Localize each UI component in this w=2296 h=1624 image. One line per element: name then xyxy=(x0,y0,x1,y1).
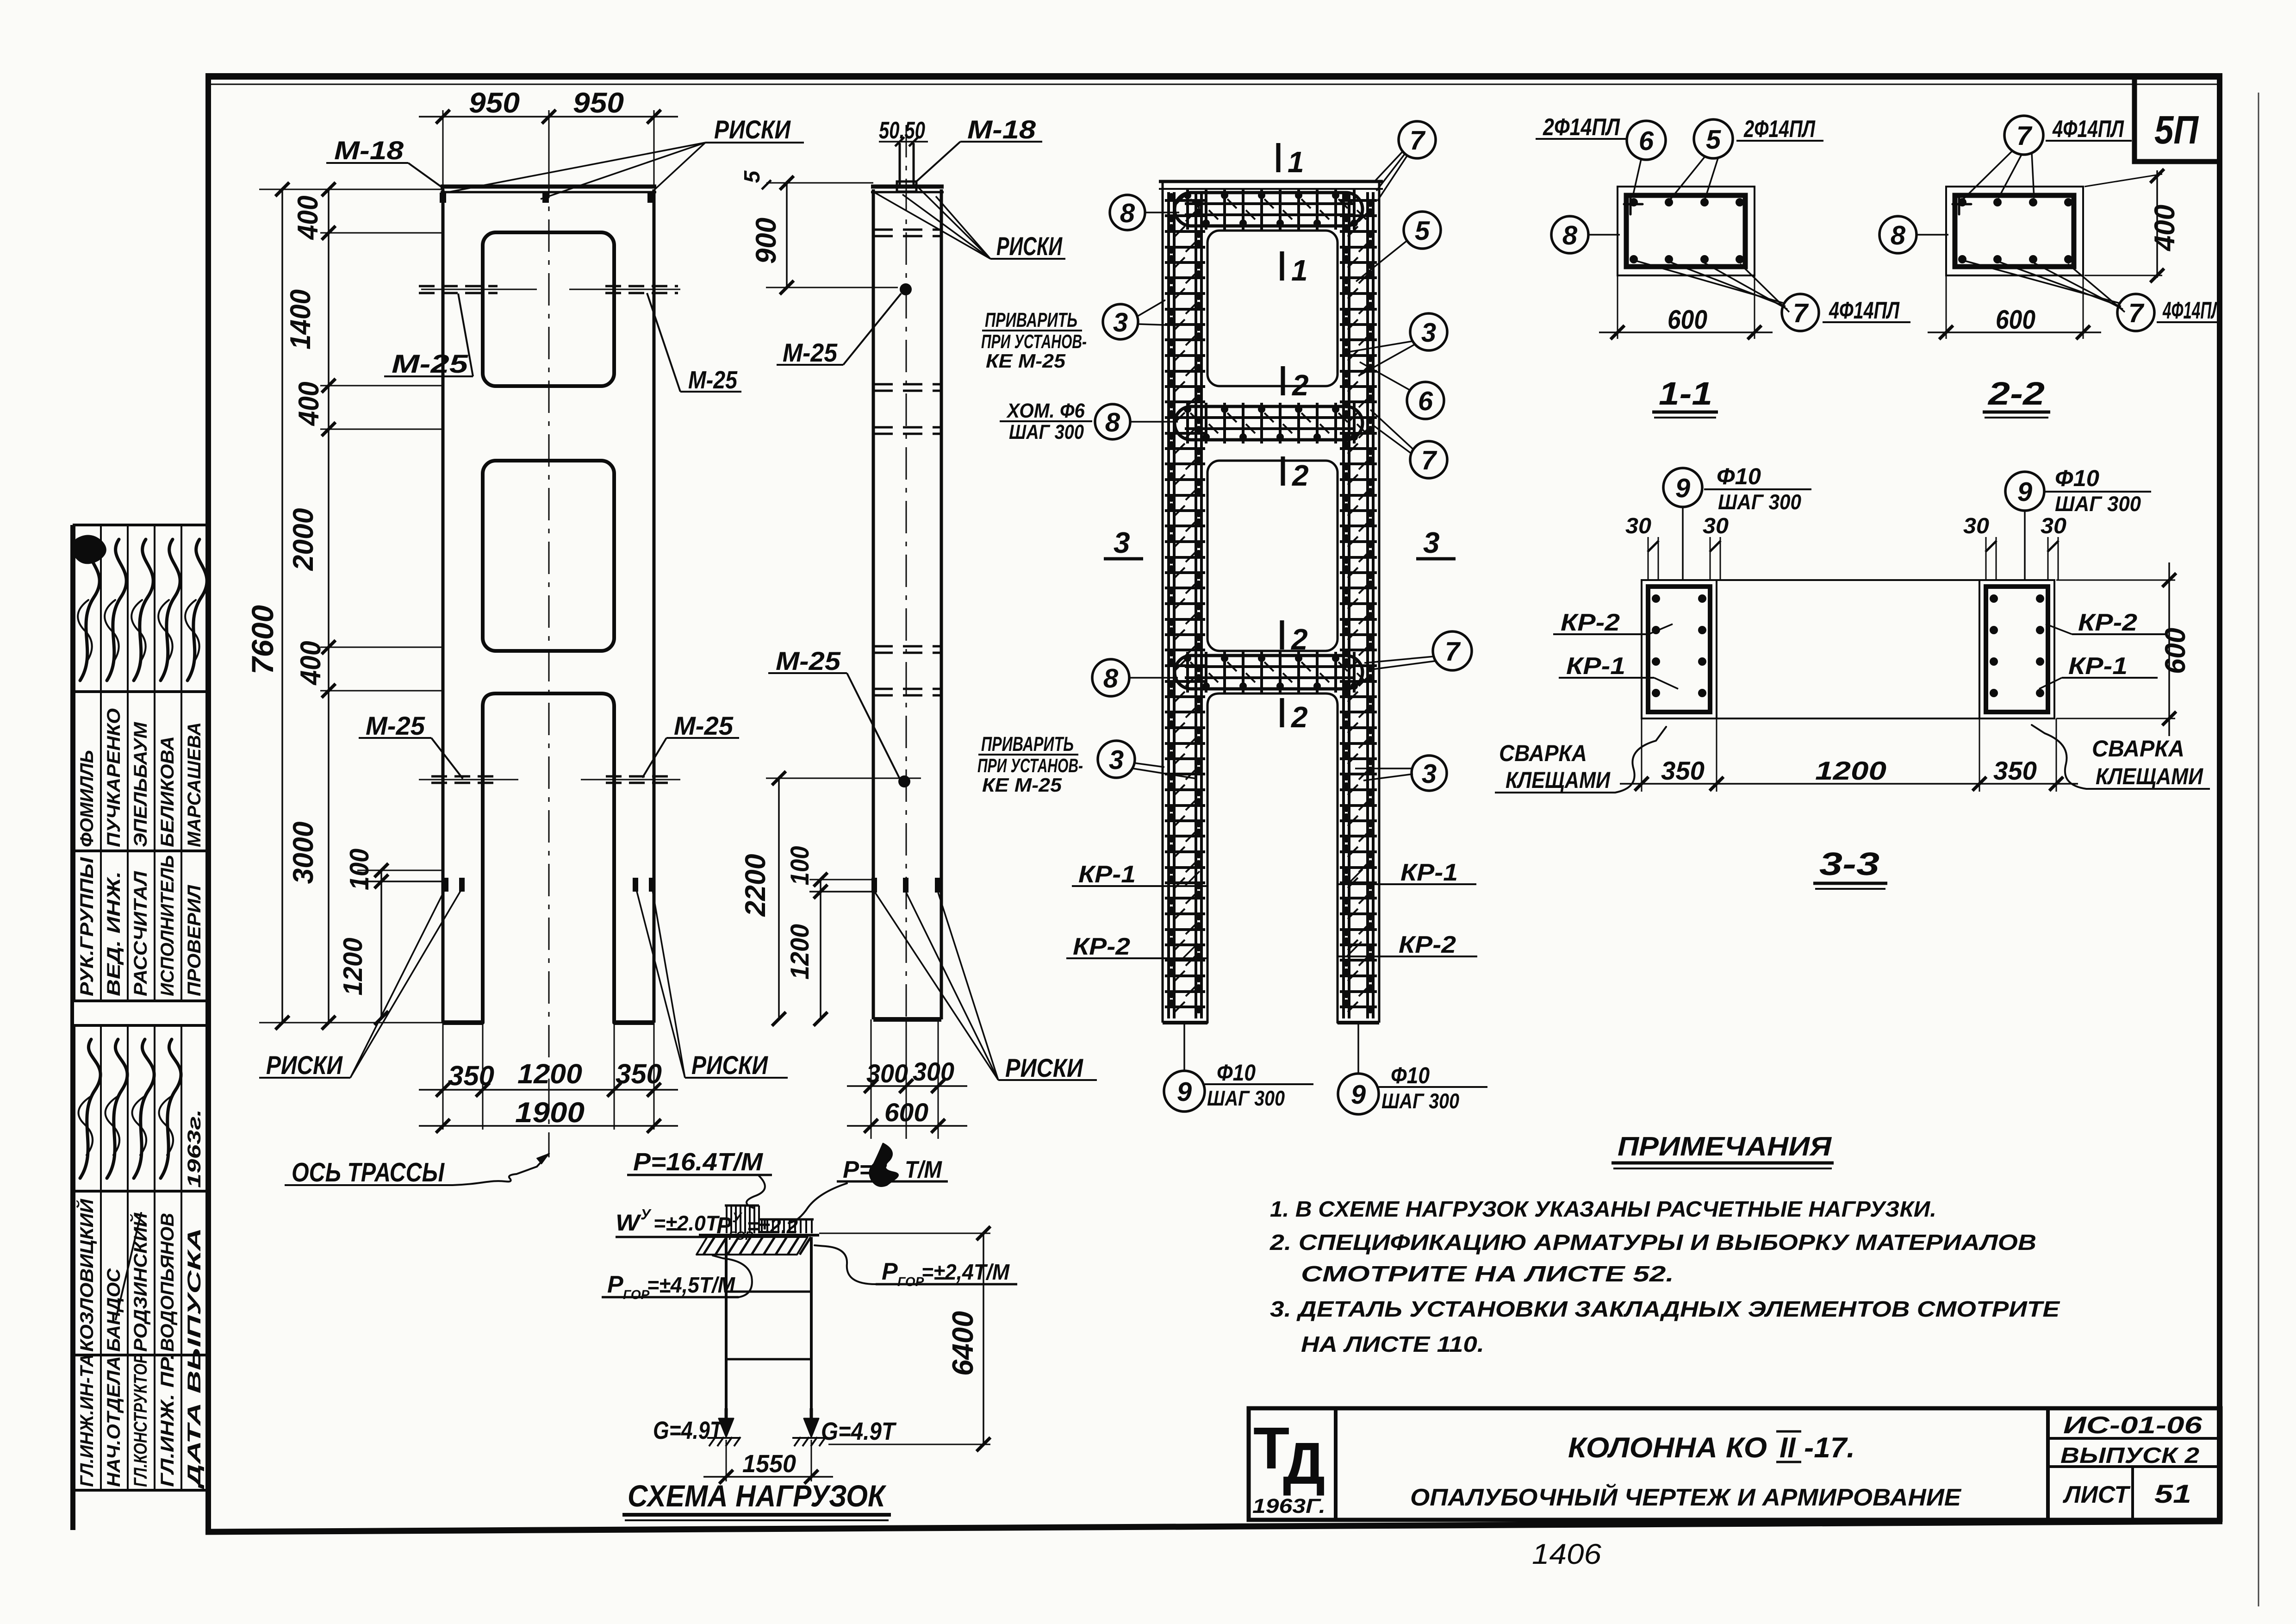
label RISKI bottom right (front view) xyxy=(636,888,788,1080)
svg-text:КР-1: КР-1 xyxy=(1566,653,1625,680)
svg-text:М-25: М-25 xyxy=(392,349,468,378)
front view upper M-25 embed dashed marks xyxy=(419,285,498,287)
load scheme label P=16.4t/m with leader xyxy=(627,1148,772,1208)
svg-text:1200: 1200 xyxy=(1815,756,1886,785)
section 3-3 connecting outline lines xyxy=(1717,580,1979,718)
dimension 7600 overall left xyxy=(245,182,444,1030)
label M-18 front view with leader xyxy=(326,136,443,188)
svg-text:Ф10: Ф10 xyxy=(1391,1062,1430,1088)
svg-text:400: 400 xyxy=(292,196,324,241)
load scheme label Rgor=2.4t/m with leader xyxy=(815,1245,1017,1289)
callout circle 5 section 1-1 with leader fan xyxy=(1670,119,1733,200)
svg-text:1400: 1400 xyxy=(285,289,317,350)
svg-text:Т/М: Т/М xyxy=(905,1156,943,1183)
label Privarit pri ustanovke M-25 lower with circle 3 xyxy=(977,733,1197,796)
svg-text:350: 350 xyxy=(448,1060,494,1091)
label Svarka kleschami left 3-3 xyxy=(1495,727,1666,793)
side view hidden dashed lines of openings xyxy=(873,230,941,695)
svg-text:БАНДОС: БАНДОС xyxy=(104,1268,124,1352)
svg-text:ОПАЛУБОЧНЫЙ ЧЕРТЕЖ И АРМ: ОПАЛУБОЧНЫЙ ЧЕРТЕЖ И АРМИРОВАНИЕ xyxy=(1410,1483,1961,1511)
svg-text:100: 100 xyxy=(344,849,374,890)
section 2-2 cross section rect xyxy=(1946,187,2083,275)
side view column outline xyxy=(871,187,944,1019)
label Kr-2 left leg with rule xyxy=(1066,933,1208,960)
section mark 1 inside opening 1 xyxy=(1282,251,1308,287)
svg-text:КЛЕЩАМИ: КЛЕЩАМИ xyxy=(2096,763,2203,789)
rebar view left wall cage band xyxy=(1165,192,1205,1018)
svg-text:1550: 1550 xyxy=(742,1450,796,1478)
svg-text:ГЛ.ИНЖ. ПР.: ГЛ.ИНЖ. ПР. xyxy=(157,1354,178,1487)
svg-text:ШАГ 300: ШАГ 300 xyxy=(1381,1089,1459,1113)
section mark 3 left of legs xyxy=(1104,526,1143,559)
svg-text:ГЛ.ИНЖ.ИН-ТА: ГЛ.ИНЖ.ИН-ТА xyxy=(77,1354,97,1487)
rebar view middle stirrup band 2 xyxy=(1175,652,1366,693)
svg-text:ЭПЕЛЬБАУМ: ЭПЕЛЬБАУМ xyxy=(131,721,151,847)
title block outer frame xyxy=(1249,1408,2221,1520)
svg-text:РИСКИ: РИСКИ xyxy=(1005,1053,1083,1082)
svg-text:ГОР: ГОР xyxy=(897,1274,924,1289)
label Kr-1 left leg with rule xyxy=(1072,861,1208,888)
title 2-2 xyxy=(1983,375,2050,418)
svg-text:У: У xyxy=(641,1206,652,1223)
svg-text:Р=16.4Т/М: Р=16.4Т/М xyxy=(633,1148,763,1176)
svg-text:КЕ М-25: КЕ М-25 xyxy=(982,774,1062,796)
svg-text:ШАГ 300: ШАГ 300 xyxy=(2055,492,2141,516)
section mark 2 inside opening 1 xyxy=(1283,366,1309,402)
dimension 2200 side view xyxy=(740,771,921,1026)
svg-text:СВАРКА: СВАРКА xyxy=(1499,740,1587,766)
svg-text:7: 7 xyxy=(1793,298,1809,328)
label M-25 upper left (front view) xyxy=(384,294,473,378)
svg-text:ПРИМЕЧАНИЯ: ПРИМЕЧАНИЯ xyxy=(1618,1131,1832,1162)
svg-text:ВЫПУСК 2: ВЫПУСК 2 xyxy=(2060,1443,2199,1468)
callout circle 7 section 1-1 with leader fan and label 4F14pl xyxy=(1634,260,1910,331)
svg-text:=±2,4Т/М: =±2,4Т/М xyxy=(921,1260,1010,1285)
svg-text:ХОМ. Ф6: ХОМ. Ф6 xyxy=(1006,400,1085,422)
title 1-1 xyxy=(1652,375,1718,418)
svg-text:ПУЧКАРЕНКО: ПУЧКАРЕНКО xyxy=(104,708,124,847)
svg-text:2: 2 xyxy=(1291,700,1308,734)
callout circle 8 at band 2 left with leader xyxy=(1092,659,1178,696)
svg-text:1: 1 xyxy=(1288,145,1304,179)
svg-text:=±4,5Т/М: =±4,5Т/М xyxy=(647,1273,735,1298)
title block main title Kolonna KO II-17 xyxy=(1568,1431,1855,1464)
load scheme distributed load arrows block p xyxy=(759,1219,814,1233)
svg-text:G=4.9Т: G=4.9Т xyxy=(653,1417,724,1444)
side view M-25 dot lower xyxy=(898,775,910,787)
svg-text:4Ф14ПЛ: 4Ф14ПЛ xyxy=(2052,116,2124,143)
circle 9 left section 3-3 with F10 shag 300 xyxy=(1663,463,1811,580)
svg-text:7: 7 xyxy=(1445,637,1461,667)
svg-text:600: 600 xyxy=(2159,628,2191,674)
rebar view outline xyxy=(1159,181,1383,1023)
svg-text:КР-2: КР-2 xyxy=(1561,609,1620,636)
svg-text:ШАГ 300: ШАГ 300 xyxy=(1207,1086,1285,1110)
svg-text:II: II xyxy=(1780,1432,1796,1464)
svg-text:W: W xyxy=(616,1210,641,1236)
dimension 50,50 above side view stem xyxy=(879,117,928,146)
svg-text:9: 9 xyxy=(1177,1077,1192,1107)
front view lower M-25 embed dashed marks xyxy=(431,775,497,778)
svg-text:1200: 1200 xyxy=(517,1058,582,1089)
svg-text:5: 5 xyxy=(740,170,765,183)
svg-text:2: 2 xyxy=(1292,459,1309,492)
label Kr-2 right leg with rule xyxy=(1337,931,1477,958)
load scheme label Wy and Rgor xyxy=(616,1206,798,1243)
svg-text:5: 5 xyxy=(1415,216,1430,246)
svg-text:М-25: М-25 xyxy=(783,338,838,367)
callout circle 8 section 2-2 with leader xyxy=(1879,216,1948,253)
svg-text:8: 8 xyxy=(1103,663,1119,693)
load scheme top chord and hatched cap xyxy=(697,1235,819,1255)
svg-text:300: 300 xyxy=(866,1059,908,1088)
svg-text:600: 600 xyxy=(1996,305,2035,335)
svg-text:ПРИ УСТАНОВ-: ПРИ УСТАНОВ- xyxy=(981,331,1087,352)
svg-text:950: 950 xyxy=(573,87,624,119)
section 3-3 left leg rect xyxy=(1642,580,1717,718)
svg-text:ВОДОПЬЯНОВ: ВОДОПЬЯНОВ xyxy=(157,1213,178,1352)
dimension 600 section 2-2 xyxy=(1928,275,2101,339)
label RISKI side view top with leader fan xyxy=(875,184,1065,261)
dimension 950+950 top xyxy=(419,87,678,194)
load scheme label p=8.4t/m with leader and ink blot xyxy=(789,1143,948,1223)
label M-25 side view lower xyxy=(768,646,900,779)
svg-text:РИСКИ: РИСКИ xyxy=(996,231,1063,261)
svg-text:350: 350 xyxy=(1993,756,2037,785)
svg-text:8: 8 xyxy=(1891,220,1906,250)
svg-text:7: 7 xyxy=(2016,121,2033,151)
svg-text:=±2.0Т: =±2.0Т xyxy=(653,1211,720,1235)
svg-text:30: 30 xyxy=(1625,514,1651,538)
svg-text:ДАТА ВЫПУСКА: ДАТА ВЫПУСКА xyxy=(184,1228,205,1489)
section mark 2 inside opening 2 xyxy=(1282,620,1308,656)
dimension 5 side view plate thickness xyxy=(740,170,873,189)
svg-text:М-25: М-25 xyxy=(776,646,841,675)
circle 9 right section 3-3 with F10 shag 300 xyxy=(2005,465,2151,580)
svg-text:51: 51 xyxy=(2154,1479,2191,1508)
section mark 2 below band 2 xyxy=(1282,698,1308,734)
label RISKI bottom left (front view) xyxy=(259,888,462,1080)
front view centerline (ось трассы) xyxy=(548,112,550,1157)
svg-text:3: 3 xyxy=(1114,526,1130,559)
sidebar approval table block 1 (signatures/names/roles) xyxy=(70,525,208,1530)
dimensions 30 above right leg 3-3 xyxy=(1963,514,2066,580)
svg-text:1200: 1200 xyxy=(338,938,368,996)
svg-text:СВАРКА: СВАРКА xyxy=(2092,736,2184,762)
svg-text:2Ф14ПЛ: 2Ф14ПЛ xyxy=(1543,114,1620,141)
section 1-1 corner weld mark xyxy=(1624,198,1643,214)
svg-text:ОСЬ ТРАССЫ: ОСЬ ТРАССЫ xyxy=(292,1157,445,1187)
svg-text:Ф10: Ф10 xyxy=(1217,1060,1256,1086)
svg-text:7: 7 xyxy=(2128,298,2145,328)
svg-text:30: 30 xyxy=(2041,514,2066,538)
callout circle 6 right with leader xyxy=(1360,362,1444,419)
label M-18 side view with leader xyxy=(916,115,1042,181)
section mark 3 right of legs xyxy=(1416,526,1456,559)
svg-text:М-18: М-18 xyxy=(967,115,1036,144)
svg-text:РИСКИ: РИСКИ xyxy=(691,1050,768,1080)
svg-text:1900: 1900 xyxy=(515,1097,585,1129)
load scheme dimension 6400 xyxy=(819,1226,990,1451)
dimension 300,300 below side view xyxy=(847,1019,967,1139)
title Skhema nagruzok xyxy=(622,1479,891,1520)
svg-text:400: 400 xyxy=(293,382,325,427)
label Kr-1 right 3-3 xyxy=(2039,653,2158,689)
svg-text:3000: 3000 xyxy=(287,822,319,884)
svg-text:РАССЧИТАЛ: РАССЧИТАЛ xyxy=(131,870,151,996)
svg-text:3-3: 3-3 xyxy=(1819,846,1879,882)
svg-text:КОЗЛОВИЦКИЙ: КОЗЛОВИЦКИЙ xyxy=(76,1199,97,1352)
svg-text:М-25: М-25 xyxy=(688,366,738,394)
front view opening 1 xyxy=(483,232,614,386)
svg-text:Р: Р xyxy=(607,1271,623,1298)
svg-text:НАЧ.ОТДЕЛА: НАЧ.ОТДЕЛА xyxy=(104,1356,124,1487)
callout circle 7 at band 2 right with leaders xyxy=(1364,631,1472,670)
svg-text:ЛИСТ: ЛИСТ xyxy=(2062,1481,2131,1508)
svg-text:СМОТРИТЕ НА ЛИСТЕ 52.: СМОТРИТЕ НА ЛИСТЕ 52. xyxy=(1301,1262,1674,1287)
svg-text:РОДЗИНСКИЙ: РОДЗИНСКИЙ xyxy=(130,1212,151,1352)
callout circle 7 section 2-2 top with leader fan and label 4F14pl xyxy=(1963,116,2132,199)
svg-text:1200: 1200 xyxy=(785,924,814,980)
dimension 1200/100 front lower left xyxy=(338,849,443,1025)
svg-text:350: 350 xyxy=(1661,756,1705,785)
svg-text:2. СПЕЦИФИКАЦИЮ АРМАТУРЫ И: 2. СПЕЦИФИКАЦИЮ АРМАТУРЫ И ВЫБОРКУ МАТЕР… xyxy=(1269,1230,2036,1255)
svg-text:1406: 1406 xyxy=(1532,1538,1602,1570)
dimension 600 right side 3-3 xyxy=(2056,562,2191,736)
callout circle 3 right upper with leaders xyxy=(1349,313,1447,376)
svg-text:ПРИВАРИТЬ: ПРИВАРИТЬ xyxy=(981,733,1074,756)
svg-text:900: 900 xyxy=(750,218,782,264)
svg-text:2: 2 xyxy=(1291,623,1308,656)
svg-text:7: 7 xyxy=(1410,125,1426,156)
svg-text:5П: 5П xyxy=(2154,108,2199,152)
svg-text:G=4.9Т: G=4.9Т xyxy=(821,1418,897,1445)
svg-text:ПРИ УСТАНОВ-: ПРИ УСТАНОВ- xyxy=(977,755,1083,776)
svg-text:ПРИВАРИТЬ: ПРИВАРИТЬ xyxy=(985,309,1077,331)
callout circle 5 right with leader xyxy=(1356,212,1441,281)
svg-text:НА ЛИСТЕ 110.: НА ЛИСТЕ 110. xyxy=(1301,1332,1484,1357)
svg-text:100: 100 xyxy=(785,846,814,886)
label Kr-2 right 3-3 xyxy=(2046,609,2168,636)
svg-text:Ф10: Ф10 xyxy=(2055,465,2099,491)
svg-text:30: 30 xyxy=(1703,514,1729,538)
load scheme column bar xyxy=(726,1235,811,1408)
svg-text:600: 600 xyxy=(1668,305,1707,335)
svg-text:6: 6 xyxy=(1639,126,1654,156)
svg-text:М-25: М-25 xyxy=(674,711,734,740)
svg-text:1963г.: 1963г. xyxy=(184,1109,205,1188)
section 1-1 cross section rect xyxy=(1618,187,1755,275)
load scheme dimension 1550 xyxy=(703,1440,833,1484)
load scheme bottom arrows G=4.9t xyxy=(653,1408,897,1446)
svg-text:3: 3 xyxy=(1109,745,1124,775)
rebar view top stirrup band xyxy=(1175,189,1366,230)
svg-text:КР-1: КР-1 xyxy=(1078,861,1136,888)
dimension 900 side view xyxy=(750,176,898,294)
svg-text:СХЕМА НАГРУЗОК: СХЕМА НАГРУЗОК xyxy=(628,1479,887,1513)
dimension 1900 bottom of front view xyxy=(419,1097,678,1133)
dimension 400 section 2-2 right xyxy=(2084,169,2181,282)
svg-text:300: 300 xyxy=(913,1057,954,1086)
svg-text:КР-2: КР-2 xyxy=(1399,931,1456,958)
svg-text:350: 350 xyxy=(616,1058,662,1089)
svg-text:5: 5 xyxy=(1706,125,1721,155)
label Kr-1 right leg with rule xyxy=(1337,859,1476,886)
label Khom F6 shag 300 with circle 8 xyxy=(1000,400,1178,443)
svg-text:У: У xyxy=(732,1210,743,1225)
svg-text:30: 30 xyxy=(1963,514,1989,538)
callout circle 3 lower right with leaders xyxy=(1355,756,1447,791)
front view opening 2 xyxy=(483,461,614,651)
svg-text:ФОМИЛЛЬ: ФОМИЛЛЬ xyxy=(77,750,97,847)
label 2F14pl right section 1-1 xyxy=(1736,116,1823,143)
dimension 1200/100 side view xyxy=(785,846,872,1026)
svg-text:Ф10: Ф10 xyxy=(1717,463,1761,489)
svg-text:400: 400 xyxy=(2149,205,2181,252)
label Os trassy with leader arrow to centerline xyxy=(285,1154,549,1187)
svg-text:1-1: 1-1 xyxy=(1659,375,1712,412)
callout circle 9 left with F10 shag 300 xyxy=(1164,1023,1313,1112)
dimension 350/1200/350 below 3-3 xyxy=(1620,718,2078,792)
notes title Primechaniya xyxy=(1612,1131,1834,1168)
svg-text:КОЛОННА КО: КОЛОННА КО xyxy=(1568,1432,1767,1464)
side view M-25 dot upper xyxy=(900,283,912,295)
svg-text:РУК.ГРУППЫ: РУК.ГРУППЫ xyxy=(77,857,97,996)
svg-text:Р: Р xyxy=(882,1258,898,1285)
svg-text:9: 9 xyxy=(1675,473,1690,503)
label RISKI top (front view) with leader fan xyxy=(441,115,804,199)
svg-text:ГЛ.КОНСТРУКТОР: ГЛ.КОНСТРУКТОР xyxy=(131,1354,151,1487)
dimension 600 section 1-1 xyxy=(1599,275,1773,339)
rebar view middle stirrup band 1 xyxy=(1175,403,1366,443)
svg-text:3: 3 xyxy=(1422,759,1437,789)
svg-text:ШАГ 300: ШАГ 300 xyxy=(1009,421,1084,443)
svg-text:1. В СХЕМЕ НАГРУЗОК УКАЗАНЫ: 1. В СХЕМЕ НАГРУЗОК УКАЗАНЫ РАСЧЕТНЫЕ НА… xyxy=(1270,1197,1936,1222)
title 3-3 xyxy=(1813,846,1887,889)
svg-text:3: 3 xyxy=(1423,526,1440,559)
svg-text:РИСКИ: РИСКИ xyxy=(266,1050,343,1080)
svg-text:7: 7 xyxy=(1421,445,1437,475)
load scheme label Rgor=4.5t/m with leader xyxy=(602,1255,752,1302)
label RISKI side view bottom with leader fan xyxy=(875,893,1097,1082)
svg-text:9: 9 xyxy=(1351,1080,1366,1110)
front view riski marks at 1200 level xyxy=(443,878,448,892)
TD logo 1963 xyxy=(1252,1415,1325,1518)
callout circle 7 top right with leaders xyxy=(1374,121,1436,201)
dimension 600 below side view xyxy=(847,1098,967,1133)
callout circle 6 section 1-1 xyxy=(1627,121,1666,196)
svg-text:МАРСАШЕВА: МАРСАШЕВА xyxy=(184,722,205,847)
label Privarit pri ustanovke M-25 upper with circle 3 xyxy=(981,300,1180,372)
side view M-18 stem on top xyxy=(897,143,916,192)
load scheme distributed load arrows block P xyxy=(725,1206,759,1233)
svg-text:8: 8 xyxy=(1120,198,1135,228)
svg-text:ВЕД. ИНЖ.: ВЕД. ИНЖ. xyxy=(104,871,124,996)
sidebar approval table block 2 (signatures/names/roles) xyxy=(74,1025,208,1530)
svg-text:КР-1: КР-1 xyxy=(2068,653,2128,680)
label Kr-1 left 3-3 xyxy=(1559,653,1678,689)
svg-text:Д: Д xyxy=(1283,1430,1325,1497)
svg-text:КР-2: КР-2 xyxy=(1073,933,1130,960)
callout circle 9 right with F10 shag 300 xyxy=(1338,1023,1487,1114)
svg-text:400: 400 xyxy=(295,641,327,686)
callout circle 8 section 1-1 with leader xyxy=(1551,216,1620,253)
section 2-2 corner weld mark xyxy=(1953,198,1971,214)
svg-text:6400: 6400 xyxy=(946,1311,979,1376)
label Svarka kleschami right 3-3 xyxy=(2032,725,2210,789)
svg-text:9: 9 xyxy=(2017,477,2032,507)
svg-text:8: 8 xyxy=(1562,220,1578,250)
label M-25 upper right (front view) xyxy=(647,293,741,394)
side view riski marks at 1200 level xyxy=(871,878,877,893)
svg-text:600: 600 xyxy=(884,1098,928,1127)
front view opening 3 (open bottom legs) xyxy=(483,693,614,1023)
svg-text:ШАГ 300: ШАГ 300 xyxy=(1718,490,1801,514)
svg-text:КР-1: КР-1 xyxy=(1400,859,1458,886)
section mark 2 below band 1 xyxy=(1283,456,1309,492)
svg-text:М-25: М-25 xyxy=(366,711,425,740)
side view centerline xyxy=(906,125,907,1132)
svg-text:ИСПОЛНИТЕЛЬ: ИСПОЛНИТЕЛЬ xyxy=(157,855,178,996)
svg-text:1: 1 xyxy=(1291,254,1308,287)
svg-text:3: 3 xyxy=(1113,307,1128,337)
label M-25 lower right (front view) xyxy=(642,711,739,778)
section mark 1 top xyxy=(1278,143,1304,179)
svg-text:3: 3 xyxy=(1421,318,1436,348)
svg-text:2000: 2000 xyxy=(287,508,319,571)
dimension chain 400/1400/400/2000/400/3000 left xyxy=(285,182,444,1030)
svg-text:РИСКИ: РИСКИ xyxy=(714,115,791,144)
svg-text:2-2: 2-2 xyxy=(1987,375,2045,412)
svg-text:ИС-01-06: ИС-01-06 xyxy=(2063,1412,2203,1439)
label Kr-2 left 3-3 xyxy=(1553,609,1673,636)
callout circle 7 right second with leaders xyxy=(1370,410,1447,478)
front view riski marks on top plate xyxy=(440,193,446,203)
label 2F14pl left section 1-1 xyxy=(1536,114,1627,141)
label M-25 side view upper xyxy=(777,294,901,367)
front view column outline xyxy=(441,187,656,1023)
svg-text:1963Г.: 1963Г. xyxy=(1252,1495,1325,1518)
svg-text:950: 950 xyxy=(469,87,520,119)
svg-text:7600: 7600 xyxy=(245,605,280,675)
svg-text:4Ф14ПЛ: 4Ф14ПЛ xyxy=(1829,297,1900,324)
svg-text:4Ф14ПЛ: 4Ф14ПЛ xyxy=(2162,297,2222,324)
svg-text:КЕ М-25: КЕ М-25 xyxy=(986,350,1066,372)
svg-text:2: 2 xyxy=(1292,369,1309,402)
rebar view right wall cage band xyxy=(1340,192,1377,1018)
svg-text:3. ДЕТАЛЬ УСТАНОВКИ ЗАКЛАДНЫ: 3. ДЕТАЛЬ УСТАНОВКИ ЗАКЛАДНЫХ ЭЛЕМЕНТОВ … xyxy=(1270,1297,2060,1322)
dimension 350/1200/350 bottom of front view xyxy=(419,1023,678,1130)
section 3-3 right leg rect xyxy=(1979,580,2054,718)
svg-text:ГОР: ГОР xyxy=(623,1287,650,1302)
svg-text:-17.: -17. xyxy=(1804,1432,1855,1464)
svg-text:6: 6 xyxy=(1418,386,1433,416)
svg-text:ПРОВЕРИЛ: ПРОВЕРИЛ xyxy=(184,884,205,996)
svg-text:БЕЛИКОВА: БЕЛИКОВА xyxy=(157,736,178,847)
sheet number box 5P top right xyxy=(2134,76,2220,162)
svg-text:8: 8 xyxy=(1105,407,1120,437)
callout circle 7 section 2-2 bottom with leader fan and label 4F14pl xyxy=(1962,260,2222,331)
svg-text:КЛЕЩАМИ: КЛЕЩАМИ xyxy=(1506,767,1611,793)
svg-text:КР-2: КР-2 xyxy=(2078,609,2137,636)
label M-25 lower left (front view) xyxy=(359,711,463,779)
svg-text:М-18: М-18 xyxy=(334,136,404,165)
callout circle 8 top left with leader xyxy=(1110,195,1179,230)
svg-text:=±2.2: =±2.2 xyxy=(747,1214,798,1238)
svg-text:2Ф14ПЛ: 2Ф14ПЛ xyxy=(1743,116,1816,143)
dimensions 30 above left leg 3-3 xyxy=(1625,514,1729,580)
svg-text:2200: 2200 xyxy=(740,854,772,917)
